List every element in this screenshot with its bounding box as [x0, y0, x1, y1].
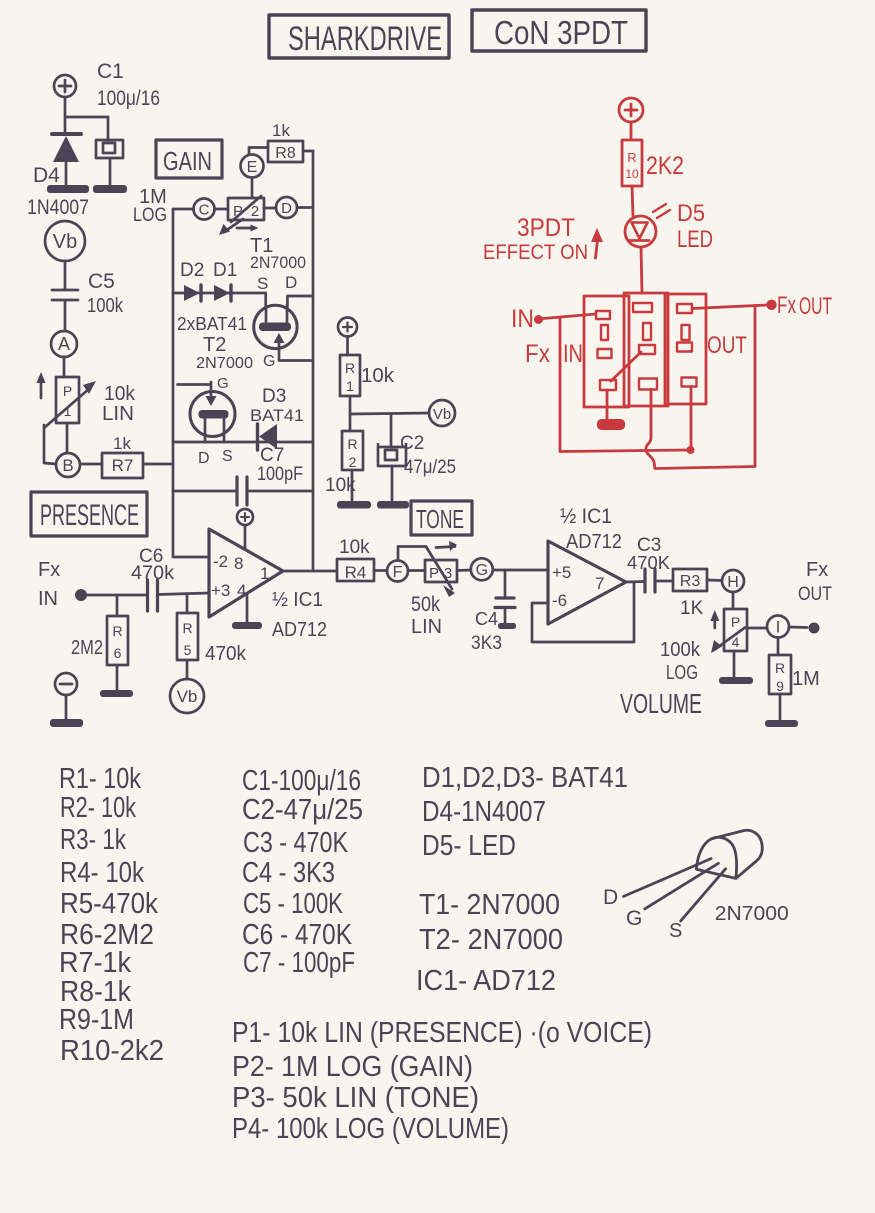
svg-text:R9-1M: R9-1M: [59, 1004, 134, 1036]
svg-text:-2: -2: [213, 552, 228, 571]
svg-text:C7 - 100pF: C7 - 100pF: [243, 947, 355, 979]
svg-text:R4- 10k: R4- 10k: [60, 857, 145, 889]
svg-text:6: 6: [114, 645, 122, 661]
svg-text:G: G: [476, 562, 488, 579]
svg-text:R5-470k: R5-470k: [60, 888, 159, 920]
svg-text:S: S: [669, 920, 682, 942]
svg-text:R1- 10k: R1- 10k: [59, 763, 142, 795]
svg-text:GAIN: GAIN: [163, 146, 212, 176]
svg-text:Fx: Fx: [525, 340, 550, 368]
svg-text:P2- 1M LOG (GAIN): P2- 1M LOG (GAIN): [232, 1051, 473, 1083]
svg-text:S: S: [222, 448, 233, 465]
svg-text:D: D: [285, 273, 297, 292]
svg-text:1: 1: [260, 564, 269, 583]
svg-text:R3- 1k: R3- 1k: [60, 824, 127, 856]
svg-text:2xBAT41: 2xBAT41: [177, 314, 247, 334]
svg-text:1N4007: 1N4007: [27, 196, 89, 219]
svg-text:AD712: AD712: [566, 531, 622, 553]
svg-text:PRESENCE: PRESENCE: [40, 499, 139, 532]
svg-text:10k: 10k: [361, 365, 395, 387]
svg-text:3PDT: 3PDT: [517, 214, 575, 242]
svg-text:10: 10: [625, 167, 639, 181]
svg-text:C7: C7: [260, 445, 284, 466]
svg-text:10k: 10k: [339, 537, 370, 558]
svg-text:P: P: [429, 565, 439, 582]
svg-text:5: 5: [184, 642, 192, 658]
svg-text:F: F: [393, 564, 403, 581]
svg-text:D: D: [603, 886, 618, 909]
svg-text:B: B: [62, 456, 73, 475]
svg-text:IN: IN: [511, 305, 534, 333]
svg-text:470k: 470k: [205, 643, 247, 665]
svg-text:1k: 1k: [272, 121, 290, 140]
svg-text:T2: T2: [203, 334, 226, 356]
svg-text:D4: D4: [33, 164, 60, 187]
svg-text:+5: +5: [552, 563, 571, 582]
svg-text:100μ/16: 100μ/16: [97, 87, 160, 110]
svg-text:R10-2k2: R10-2k2: [60, 1035, 164, 1067]
svg-text:C5: C5: [88, 270, 115, 293]
svg-text:100k: 100k: [660, 639, 701, 661]
svg-text:LOG: LOG: [133, 205, 167, 226]
svg-text:R7-1k: R7-1k: [59, 947, 132, 979]
svg-text:2N7000: 2N7000: [250, 253, 306, 272]
svg-text:C2-47μ/25: C2-47μ/25: [242, 794, 363, 826]
svg-text:4: 4: [732, 634, 740, 650]
svg-text:R: R: [345, 360, 355, 376]
svg-text:R: R: [112, 623, 122, 639]
svg-text:470K: 470K: [627, 553, 670, 573]
svg-text:EFFECT ON: EFFECT ON: [483, 241, 588, 264]
svg-text:½ IC1: ½ IC1: [272, 589, 323, 611]
svg-text:Fx: Fx: [806, 559, 828, 581]
svg-text:G: G: [263, 353, 275, 370]
svg-text:P: P: [731, 614, 740, 630]
svg-text:D2: D2: [180, 260, 204, 281]
svg-text:D: D: [198, 450, 210, 467]
svg-text:1: 1: [346, 378, 354, 394]
svg-text:D5: D5: [677, 200, 705, 227]
svg-text:2N7000: 2N7000: [715, 903, 789, 925]
svg-text:9: 9: [776, 678, 784, 694]
svg-text:VOLUME: VOLUME: [620, 688, 702, 719]
svg-text:CoN 3PDT: CoN 3PDT: [494, 14, 628, 51]
svg-text:+3: +3: [211, 581, 230, 600]
svg-text:8: 8: [234, 554, 243, 573]
svg-text:4: 4: [237, 581, 246, 600]
svg-text:R2- 10k: R2- 10k: [60, 792, 137, 824]
svg-text:2M2: 2M2: [71, 637, 103, 659]
svg-text:1k: 1k: [113, 434, 131, 453]
svg-text:100k: 100k: [87, 295, 124, 317]
svg-text:1K: 1K: [680, 598, 704, 619]
svg-text:P: P: [63, 383, 72, 399]
svg-text:C1: C1: [97, 60, 124, 83]
svg-text:P: P: [233, 203, 243, 220]
svg-text:2N7000: 2N7000: [196, 355, 253, 372]
svg-text:2: 2: [251, 203, 259, 220]
svg-text:D5- LED: D5- LED: [422, 830, 516, 862]
svg-text:I: I: [776, 618, 781, 637]
svg-text:50k: 50k: [411, 593, 440, 616]
svg-text:H: H: [727, 574, 739, 591]
svg-text:D3: D3: [262, 386, 286, 407]
svg-text:½ IC1: ½ IC1: [560, 505, 612, 528]
svg-text:LIN: LIN: [411, 616, 442, 638]
svg-text:E: E: [247, 159, 258, 176]
svg-text:C3 - 470K: C3 - 470K: [243, 827, 348, 859]
svg-text:OUT: OUT: [707, 332, 747, 359]
svg-text:D: D: [281, 200, 292, 217]
svg-text:3: 3: [444, 565, 452, 582]
svg-text:10k: 10k: [325, 475, 356, 496]
svg-text:G: G: [217, 375, 229, 392]
svg-text:Vb: Vb: [53, 231, 77, 253]
svg-text:OUT: OUT: [798, 584, 832, 605]
svg-text:S: S: [257, 274, 268, 293]
svg-text:100pF: 100pF: [257, 464, 303, 485]
svg-text:P1- 10k LIN (PRESENCE) ·(o VOI: P1- 10k LIN (PRESENCE) ·(o VOICE): [232, 1017, 652, 1049]
svg-text:D1,D2,D3- BAT41: D1,D2,D3- BAT41: [422, 762, 628, 794]
svg-text:D4-1N4007: D4-1N4007: [422, 796, 546, 828]
svg-text:1: 1: [64, 403, 72, 419]
svg-text:G: G: [626, 907, 642, 930]
svg-text:D1: D1: [213, 260, 237, 281]
svg-text:Fx: Fx: [777, 292, 796, 319]
svg-text:P3- 50k LIN (TONE): P3- 50k LIN (TONE): [232, 1082, 479, 1114]
svg-text:C4 - 3K3: C4 - 3K3: [242, 857, 335, 889]
svg-text:R4: R4: [345, 563, 367, 582]
svg-text:OUT: OUT: [799, 293, 832, 320]
svg-text:R7: R7: [112, 456, 134, 475]
svg-text:2: 2: [349, 454, 357, 470]
svg-text:C4: C4: [475, 609, 498, 629]
svg-text:IC1- AD712: IC1- AD712: [416, 965, 556, 997]
svg-text:R: R: [627, 150, 636, 165]
svg-text:7: 7: [595, 574, 604, 593]
svg-text:SHARKDRIVE: SHARKDRIVE: [288, 20, 442, 58]
svg-text:C: C: [199, 202, 210, 219]
svg-text:P4- 100k LOG (VOLUME): P4- 100k LOG (VOLUME): [232, 1113, 509, 1145]
svg-text:R3: R3: [680, 573, 701, 590]
svg-text:Vb: Vb: [177, 687, 198, 706]
svg-text:R8: R8: [275, 145, 296, 162]
svg-text:BAT41: BAT41: [250, 406, 304, 425]
svg-text:3K3: 3K3: [471, 633, 502, 654]
svg-text:C2: C2: [400, 433, 424, 454]
svg-text:10k: 10k: [104, 383, 136, 405]
svg-text:R: R: [347, 436, 357, 452]
svg-text:C5 - 100K: C5 - 100K: [243, 888, 343, 920]
svg-text:T2- 2N7000: T2- 2N7000: [419, 924, 563, 956]
svg-text:LED: LED: [677, 226, 713, 253]
svg-text:TONE: TONE: [416, 504, 464, 534]
svg-text:T1- 2N7000: T1- 2N7000: [419, 889, 560, 921]
svg-text:LOG: LOG: [666, 662, 698, 684]
svg-text:470k: 470k: [131, 563, 175, 584]
svg-text:-6: -6: [552, 591, 567, 610]
svg-text:IN: IN: [563, 340, 583, 368]
svg-text:R: R: [775, 660, 785, 676]
svg-text:Vb: Vb: [433, 406, 451, 423]
svg-text:C1-100μ/16: C1-100μ/16: [242, 765, 361, 797]
svg-text:A: A: [58, 334, 70, 354]
svg-text:R: R: [182, 620, 192, 636]
svg-text:Fx: Fx: [38, 559, 60, 581]
svg-text:LIN: LIN: [102, 403, 134, 425]
svg-text:2K2: 2K2: [646, 152, 684, 180]
svg-text:47μ/25: 47μ/25: [404, 457, 456, 478]
svg-text:IN: IN: [38, 588, 58, 610]
svg-text:AD712: AD712: [272, 619, 327, 641]
svg-text:1M: 1M: [792, 668, 820, 690]
